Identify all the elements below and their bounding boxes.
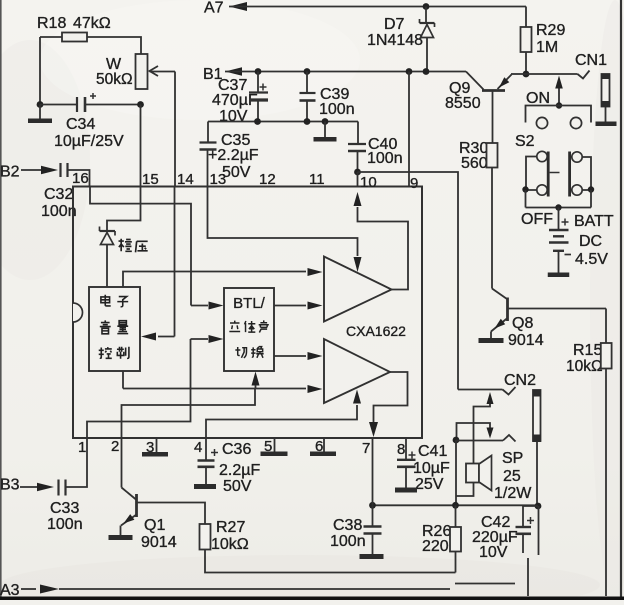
ground at CN1 <box>605 107 607 122</box>
wire pin4 internal <box>206 405 357 438</box>
wire speaker bottom <box>456 483 474 497</box>
svg-text:16: 16 <box>72 170 89 187</box>
svg-text:100n: 100n <box>330 533 366 550</box>
volume control block <box>89 287 140 371</box>
junction dot C42 top <box>535 503 542 510</box>
connector CN2 tip hook <box>503 387 516 395</box>
connector CN2 NC arm arrow <box>487 392 494 404</box>
potentiometer W wiper arrow <box>150 66 159 76</box>
arrow BTL to amp2 <box>274 355 306 357</box>
capacitor C32 plates <box>59 163 61 177</box>
svg-text:CN1: CN1 <box>575 52 607 69</box>
svg-text:D7: D7 <box>384 16 405 33</box>
wire S2 bottom <box>525 190 527 208</box>
svg-text:C38: C38 <box>333 517 362 534</box>
svg-text:ON: ON <box>526 90 550 107</box>
wire volume block output <box>123 272 306 288</box>
svg-text:Q1: Q1 <box>144 517 165 534</box>
junction dot R26 top <box>452 502 459 509</box>
svg-text:C41: C41 <box>418 443 447 460</box>
svg-text:B3: B3 <box>0 477 20 494</box>
junction dot S2 left <box>522 186 528 192</box>
switch S2 right slider bar <box>568 152 571 197</box>
junction dot S2 right <box>588 186 594 192</box>
capacitor C34 plus <box>90 95 96 97</box>
IC pin1 index notch <box>73 303 83 322</box>
switch S2 right circles <box>572 152 582 162</box>
ground at C41 <box>395 488 417 493</box>
wire output to CN2 run <box>358 172 459 390</box>
svg-text:25V: 25V <box>415 476 444 493</box>
wire B1 rail <box>225 71 466 73</box>
transistor Q8 base bar <box>506 298 509 322</box>
node B1 arrow <box>225 67 242 76</box>
arrow BTL to amp1 <box>274 305 306 307</box>
capacitor C34 plates <box>76 97 78 112</box>
resistor R18 <box>62 33 87 42</box>
transistor Q1 collector <box>137 503 206 525</box>
svg-text:100n: 100n <box>319 101 355 118</box>
capacitor C41 <box>405 438 407 460</box>
wire pot to pin15 <box>140 105 142 187</box>
svg-text:BTL/: BTL/ <box>233 295 266 312</box>
volume block text 电子 <box>101 295 111 306</box>
svg-text:11: 11 <box>309 171 325 188</box>
junction dot battery top <box>555 204 561 210</box>
svg-text:B2: B2 <box>0 164 20 181</box>
transistor Q9 base feed <box>466 72 484 90</box>
arrow into pin7 <box>369 422 378 437</box>
node A7 arrow <box>229 2 247 11</box>
switch ON loop <box>526 106 592 123</box>
svg-text:14: 14 <box>177 171 194 188</box>
wire pin13 internal <box>208 187 358 257</box>
transistor Q9 base bar <box>482 89 505 92</box>
wire pin14 internal <box>174 187 176 337</box>
svg-text:R15: R15 <box>573 342 602 359</box>
svg-text:50kΩ: 50kΩ <box>96 71 133 88</box>
wire D7 anode to B1 rail <box>426 38 428 72</box>
wire R30 to Q8 <box>491 168 493 289</box>
svg-text:BATT: BATT <box>574 213 614 230</box>
svg-text:1/2W: 1/2W <box>494 485 532 502</box>
wire pin10 stub <box>357 172 359 187</box>
svg-text:4: 4 <box>194 439 202 456</box>
capacitor C36 <box>205 438 207 461</box>
svg-text:12: 12 <box>259 171 276 188</box>
svg-text:A3: A3 <box>0 582 20 599</box>
pin 3 ground stub <box>156 438 158 452</box>
wire input bus <box>123 388 306 390</box>
wire CN2 plug bar drop <box>536 442 538 506</box>
svg-text:25: 25 <box>503 468 521 485</box>
arrow into pin10 <box>354 192 362 206</box>
arrow into amp1 top <box>354 257 362 272</box>
arrow into amp2 input B <box>308 385 323 393</box>
svg-text:R18: R18 <box>37 15 66 32</box>
battery BATT plus <box>562 221 569 223</box>
transistor Q8 base line <box>508 308 607 310</box>
wire pin2 to Q1 base <box>121 438 123 488</box>
ground at C38 <box>360 554 384 559</box>
resistor R30 <box>487 143 498 168</box>
junction dot pin10/C40 <box>354 169 361 176</box>
svg-text:15: 15 <box>142 171 159 188</box>
switch S2 center tick <box>550 172 560 174</box>
svg-text:100n: 100n <box>41 203 77 220</box>
ground at Q1 <box>109 535 133 540</box>
svg-text:10V: 10V <box>479 544 508 561</box>
wire C33 to pin1 <box>66 438 88 487</box>
volume block text 控制 <box>99 347 112 358</box>
svg-text:220: 220 <box>422 538 449 555</box>
svg-text:2.2µF: 2.2µF <box>219 462 260 479</box>
capacitor C35 <box>207 122 209 143</box>
left page border <box>0 0 2 600</box>
svg-text:DC: DC <box>579 233 602 250</box>
junction dot pot/C34 <box>137 101 144 108</box>
ground at battery <box>558 251 560 273</box>
svg-text:50V: 50V <box>223 478 252 495</box>
wire A3 line <box>59 588 450 590</box>
svg-text:OFF: OFF <box>521 211 553 228</box>
junction dot D7 anode <box>423 68 430 75</box>
svg-text:8: 8 <box>397 441 405 458</box>
junction dot Q9 emitter/R29 <box>523 71 530 78</box>
battery BATT <box>558 208 560 231</box>
ground at C36 <box>194 484 216 489</box>
svg-text:C33: C33 <box>50 500 79 517</box>
resistor R27 <box>200 524 211 550</box>
svg-text:10: 10 <box>360 174 377 191</box>
connector CN2 plug bar <box>533 390 541 441</box>
diode D7 triangle <box>421 25 434 38</box>
connector CN1 plug bar <box>602 74 610 107</box>
wire R18 left lead <box>40 36 62 38</box>
svg-text:S2: S2 <box>515 133 535 150</box>
svg-text:560: 560 <box>461 155 488 172</box>
transistor Q1 emitter <box>121 515 137 526</box>
arrow into volume block <box>158 336 175 338</box>
capacitor C40 <box>357 122 359 145</box>
wire C42 stub below dot <box>538 506 540 555</box>
resistor R29 <box>525 7 527 28</box>
svg-text:100n: 100n <box>367 150 403 167</box>
svg-text:10kΩ: 10kΩ <box>211 536 249 553</box>
svg-text:2: 2 <box>111 438 119 455</box>
svg-text:47kΩ: 47kΩ <box>73 15 111 32</box>
wire R18 right lead <box>87 37 141 54</box>
volume block text 音量 <box>100 320 111 333</box>
wire decoupling rail <box>208 121 358 123</box>
pin 5 ground stub <box>274 438 276 452</box>
potentiometer W body <box>136 54 148 89</box>
wire R18 left drop <box>39 37 41 105</box>
op-amp amp1 triangle <box>324 257 392 322</box>
capacitor C42 <box>523 506 538 527</box>
battery BATT minus <box>565 254 572 256</box>
zener diode cathode bar <box>100 230 116 232</box>
wire pin2 internal <box>122 389 256 439</box>
op-amp amp2 triangle <box>324 339 390 403</box>
BTL/stereo switch block <box>224 288 274 371</box>
wire C34 right lead <box>85 104 141 106</box>
junction dot C39 bottom <box>304 118 311 125</box>
wire C32 to pin16 <box>68 170 90 187</box>
wire pin16 internal <box>90 187 191 306</box>
junction dot CN2 arm <box>453 437 460 444</box>
capacitor C33 plates <box>57 480 59 496</box>
BTL block text 立体声 <box>229 321 240 332</box>
capacitor C37 <box>257 72 259 93</box>
svg-text:1M: 1M <box>536 39 558 56</box>
wire volume block bottom <box>122 371 124 389</box>
wire D7 top <box>425 7 427 24</box>
svg-text:50V: 50V <box>222 164 251 181</box>
wire pin9 drop <box>408 72 410 187</box>
transistor Q1 base bar <box>135 494 138 517</box>
BTL block text 切换 <box>235 347 246 358</box>
arrow into amp1 input A <box>308 268 323 276</box>
wire pin1 internal <box>87 339 191 438</box>
switch S2 left loop <box>526 157 537 191</box>
capacitor C37 plus <box>260 86 267 88</box>
junction dot D7/A7 <box>423 3 430 10</box>
svg-text:9014: 9014 <box>508 332 544 349</box>
capacitor C36 plus <box>211 452 218 454</box>
svg-text:C34: C34 <box>66 116 95 133</box>
transistor Q8 emitter <box>491 318 508 332</box>
wire CN2 second arm <box>457 423 491 440</box>
connector CN1 contact hook <box>578 71 590 79</box>
arrow into BTL bottom <box>252 372 260 386</box>
svg-text:13: 13 <box>210 171 227 188</box>
junction dot C37 bottom <box>254 118 261 125</box>
svg-text:Q8: Q8 <box>512 315 533 332</box>
zener anode wire <box>106 245 108 288</box>
junction dot rail ground stub <box>322 118 329 125</box>
svg-text:10kΩ: 10kΩ <box>566 358 603 375</box>
node B2 arrow <box>21 169 45 171</box>
svg-text:10µF/25V: 10µF/25V <box>54 133 124 150</box>
svg-text:C32: C32 <box>44 186 73 203</box>
arrow into amp2 bottom <box>353 390 361 404</box>
speaker SP body <box>466 464 479 483</box>
capacitor C41 plus <box>409 454 416 456</box>
ground at Q8 <box>479 338 504 343</box>
wire CN2 ring line <box>456 440 503 442</box>
zener diode triangle <box>101 233 114 245</box>
diode D7 cathode bar <box>420 22 435 24</box>
svg-text:10µF: 10µF <box>413 460 450 477</box>
svg-text:1N4148: 1N4148 <box>367 32 423 49</box>
svg-text:9: 9 <box>410 175 418 192</box>
wire wiper to pin14 <box>174 72 176 187</box>
wire A3 jog segment <box>455 583 515 585</box>
junction dot C37 top <box>255 68 262 75</box>
switch S2 left circles <box>537 151 547 161</box>
pin 6 ground stub <box>323 438 325 452</box>
node B3 arrow <box>20 486 40 488</box>
svg-text:A7: A7 <box>204 0 224 17</box>
wire CN2 node drop <box>455 440 457 506</box>
right page border <box>620 0 622 600</box>
svg-text:9014: 9014 <box>141 534 177 551</box>
svg-text:7: 7 <box>362 440 370 457</box>
junction dot ON top <box>556 102 562 108</box>
wire amp1 output loop <box>358 207 409 290</box>
svg-text:1: 1 <box>78 439 86 456</box>
junction dot C39 top <box>304 68 311 75</box>
transistor Q9 emitter <box>498 75 512 90</box>
resistor R26 <box>455 505 457 527</box>
capacitor C39 <box>306 72 308 94</box>
ground at C34 left <box>39 105 41 120</box>
junction dot R18/C34/ground <box>37 101 44 108</box>
svg-text:SP: SP <box>502 450 523 467</box>
switch S2 right loop <box>582 157 591 190</box>
wire bottom rail <box>373 504 539 506</box>
bottom page border <box>0 597 624 601</box>
transistor Q9 collector <box>492 91 494 144</box>
ground on rail <box>324 122 326 138</box>
node A3 arrow <box>21 588 36 590</box>
switch ON contact circles <box>536 117 547 128</box>
zener label 稳压 <box>119 239 132 252</box>
wire pin7 to rail <box>372 438 374 505</box>
svg-text:R27: R27 <box>216 519 245 536</box>
svg-text:8550: 8550 <box>445 95 481 112</box>
svg-text:C36: C36 <box>222 441 251 458</box>
connector CN2 ring hook <box>503 435 516 442</box>
arrow into BTL lower-left <box>191 338 209 340</box>
svg-text:4.5V: 4.5V <box>575 251 608 268</box>
wire amp2 output loop <box>374 372 408 422</box>
speaker SP horn <box>479 456 492 491</box>
junction dot pin7 rail <box>369 502 376 509</box>
switch ON arrow <box>558 86 560 105</box>
resistor R15 <box>605 309 607 344</box>
op-amp IC CXA1622 outline <box>73 187 422 439</box>
zener diode path from pin15 <box>107 187 141 232</box>
svg-text:CN2: CN2 <box>504 372 536 389</box>
capacitor C38 <box>372 505 374 526</box>
svg-text:CXA1622: CXA1622 <box>346 323 406 339</box>
wire A7 rail <box>229 6 526 8</box>
svg-text:10V: 10V <box>219 108 248 125</box>
arrow into BTL upper-left <box>191 305 208 307</box>
wire to CN1 <box>526 73 578 75</box>
switch S2 left slider bar <box>547 152 550 197</box>
svg-text:R29: R29 <box>536 22 565 39</box>
svg-text:100n: 100n <box>47 516 83 533</box>
wire C34 left lead <box>40 104 77 106</box>
capacitor C42 plus <box>527 520 534 522</box>
wire C42 off-page lead <box>527 558 529 596</box>
wire CN2 tip line <box>458 389 503 391</box>
wire R27 bottom run <box>205 550 456 573</box>
junction dot pin9 drop <box>406 68 413 75</box>
